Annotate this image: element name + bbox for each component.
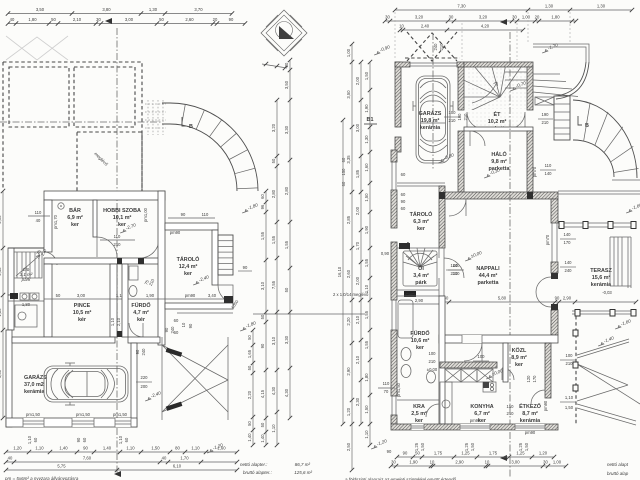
right plan top dimension row 3 — [400, 29, 523, 31]
HALO top wall — [464, 127, 533, 131]
svg-text:170: 170 — [564, 240, 572, 245]
svg-text:TÁROLÓ: TÁROLÓ — [177, 255, 200, 263]
svg-text:4,50: 4,50 — [0, 369, 2, 378]
svg-text:100: 100 — [429, 351, 437, 356]
svg-text:kerámia: kerámia — [420, 125, 441, 131]
svg-text:90: 90 — [83, 446, 88, 451]
dashed upper-floor outline rect 1 — [9, 67, 69, 127]
svg-text:90: 90 — [164, 327, 169, 332]
svg-text:7,55: 7,55 — [271, 280, 276, 289]
kitchen counters with X — [445, 369, 461, 382]
svg-text:4,30: 4,30 — [271, 386, 276, 395]
TAROLO top wall — [165, 223, 218, 230]
svg-text:KÖZL: KÖZL — [512, 347, 527, 354]
dashed upper-floor outline rect 2 — [74, 67, 135, 127]
svg-text:kér: kér — [137, 317, 146, 323]
svg-text:40: 40 — [10, 17, 15, 22]
right plan left outer wall — [391, 150, 397, 162]
svg-text:190: 190 — [542, 112, 550, 117]
svg-text:1,50: 1,50 — [364, 71, 369, 80]
svg-text:1,50: 1,50 — [420, 442, 425, 451]
svg-text:40: 40 — [162, 456, 167, 461]
svg-text:3,20: 3,20 — [479, 15, 488, 20]
lower-right ramp zigzag hatch — [577, 339, 640, 425]
svg-text:3,00: 3,00 — [511, 460, 520, 465]
GARAGE right wall — [131, 343, 137, 427]
svg-text:HÁLÓ: HÁLÓ — [491, 150, 506, 158]
svg-text:ker: ker — [71, 222, 80, 228]
svg-text:150: 150 — [507, 404, 515, 409]
svg-text:30: 30 — [284, 62, 289, 67]
terrace bottom edge with posts — [572, 310, 636, 312]
svg-text:44,4 m²: 44,4 m² — [479, 273, 498, 279]
svg-text:2,00: 2,00 — [355, 276, 360, 285]
svg-text:1,55: 1,55 — [364, 310, 369, 319]
svg-text:10: 10 — [181, 322, 186, 327]
svg-text:párk: párk — [21, 277, 32, 282]
svg-text:170: 170 — [532, 375, 537, 383]
svg-text:2,20: 2,20 — [247, 390, 252, 399]
svg-text:140: 140 — [565, 260, 573, 265]
svg-text:1,10: 1,10 — [271, 424, 276, 433]
svg-text:50: 50 — [159, 17, 164, 22]
svg-text:60: 60 — [174, 318, 179, 323]
TAROLO bottom wall — [165, 303, 233, 309]
svg-text:60: 60 — [124, 437, 129, 442]
svg-text:pm1,50: pm1,50 — [26, 412, 41, 417]
svg-text:1,10: 1,10 — [35, 446, 44, 451]
svg-text:2,85: 2,85 — [346, 215, 351, 224]
svg-text:2,40: 2,40 — [0, 267, 2, 276]
small dark pier marks — [117, 258, 122, 264]
left plan outer top wall — [44, 191, 165, 200]
left wall lower (to garage) — [8, 295, 14, 330]
terrace upper boundary line — [558, 190, 640, 192]
svg-text:1,10: 1,10 — [191, 446, 200, 451]
dashed roof gable lines — [6, 36, 68, 60]
svg-text:210: 210 — [114, 242, 122, 247]
door arc bar — [97, 237, 117, 257]
stair annex winder stairs — [14, 252, 42, 278]
svg-text:kerámia: kerámia — [591, 282, 612, 288]
svg-text:parketta: parketta — [478, 280, 500, 286]
bath fixtures — [129, 286, 137, 297]
svg-text:pm70: pm70 — [532, 166, 537, 177]
svg-text:KONYHA: KONYHA — [470, 404, 493, 410]
svg-text:ÉTKEZŐ: ÉTKEZŐ — [519, 402, 541, 410]
svg-text:30: 30 — [391, 460, 396, 465]
svg-text:B: B — [189, 124, 193, 130]
right main wall — [158, 191, 165, 345]
ramp fan borders + posts below terrace — [575, 316, 577, 425]
svg-text:1,60: 1,60 — [364, 163, 369, 172]
svg-text:1,80: 1,80 — [28, 17, 37, 22]
svg-text:4,7 m²: 4,7 m² — [133, 310, 149, 316]
svg-text:Ól: Ól — [418, 264, 424, 272]
svg-text:BÁR: BÁR — [69, 207, 81, 214]
X-braced box — [535, 97, 554, 105]
door arc annex — [44, 252, 57, 265]
exterior steps strip stack — [554, 96, 570, 140]
svg-text:50: 50 — [260, 314, 265, 319]
svg-text:90: 90 — [76, 437, 81, 442]
svg-text:1,10: 1,10 — [118, 435, 123, 444]
svg-text:1,65: 1,65 — [247, 349, 252, 358]
svg-text:150: 150 — [341, 168, 346, 176]
section mark B (left plan) — [182, 117, 186, 126]
svg-text:1,80: 1,80 — [0, 308, 2, 317]
svg-text:100: 100 — [457, 113, 462, 121]
FURDO walls — [122, 264, 128, 337]
svg-text:kerámia: kerámia — [520, 418, 541, 424]
svg-text:2,90: 2,90 — [346, 367, 351, 376]
svg-text:15,6 m²: 15,6 m² — [592, 275, 611, 281]
svg-text:90: 90 — [260, 343, 265, 348]
interior wall bar/hobbi divider — [93, 200, 97, 237]
svg-text:60: 60 — [341, 181, 346, 186]
svg-text:210: 210 — [439, 43, 444, 51]
svg-text:50: 50 — [56, 293, 61, 298]
right plan bottom dim rows — [397, 456, 554, 458]
exterior landing rect top-right — [533, 44, 589, 62]
svg-text:50: 50 — [247, 365, 252, 370]
svg-text:3,40: 3,40 — [208, 293, 217, 298]
svg-text:pm1,50: pm1,50 — [113, 412, 128, 417]
left plan bottom dim rows — [6, 451, 237, 453]
svg-text:ker: ker — [515, 362, 524, 368]
svg-text:3,30: 3,30 — [284, 335, 289, 344]
slanted black bars on ramp — [166, 348, 183, 357]
centerline dashdot garage — [432, 33, 434, 170]
door arc kozl-konyha — [502, 368, 514, 380]
FURDO (right plan) fixtures and walls — [439, 296, 445, 424]
kozl/etkezo divider — [503, 343, 508, 382]
svg-text:96: 96 — [260, 204, 265, 209]
section arrows on dash-dot line (right plan) — [500, 19, 507, 25]
svg-text:1,50: 1,50 — [524, 442, 529, 451]
door arc furdo — [129, 323, 143, 337]
svg-text:4,15: 4,15 — [260, 389, 265, 398]
svg-text:70: 70 — [384, 389, 389, 394]
svg-text:5,75: 5,75 — [57, 464, 66, 469]
interior dim 110/40 left — [28, 215, 50, 217]
svg-text:90: 90 — [403, 451, 408, 456]
svg-text:pm90: pm90 — [543, 400, 548, 411]
svg-text:3,4 m²: 3,4 m² — [413, 273, 429, 279]
left plan right vertical dim chains — [252, 330, 254, 445]
svg-text:7,30: 7,30 — [457, 4, 466, 9]
svg-text:1,75: 1,75 — [434, 451, 443, 456]
dark wall piers (right plan) — [399, 243, 410, 249]
svg-text:80: 80 — [175, 446, 180, 451]
svg-text:50: 50 — [247, 421, 252, 426]
svg-text:FÜRDŐ: FÜRDŐ — [131, 302, 150, 309]
svg-text:2,60: 2,60 — [185, 17, 194, 22]
NAPPALI top wall — [445, 192, 558, 199]
exterior stair treads right of ET — [533, 73, 560, 75]
svg-text:1,25: 1,25 — [464, 442, 469, 451]
svg-text:1,85: 1,85 — [355, 169, 360, 178]
svg-text:1,00: 1,00 — [346, 48, 351, 57]
svg-text:10,6 m²: 10,6 m² — [411, 338, 430, 344]
wall nappali bottom / kozl top — [439, 335, 558, 343]
dashed roof X over right garage — [407, 32, 457, 61]
svg-text:50: 50 — [247, 335, 252, 340]
ramp radial steps — [182, 104, 186, 125]
curved ramp outer arc — [170, 103, 258, 191]
svg-text:60: 60 — [174, 330, 179, 335]
svg-text:3,70: 3,70 — [194, 7, 203, 12]
svg-text:3,20: 3,20 — [415, 15, 424, 20]
svg-text:ker: ker — [416, 345, 425, 351]
GARAGE bottom wall with door openings — [6, 418, 137, 427]
svg-text:10: 10 — [485, 460, 490, 465]
svg-text:párk: párk — [415, 280, 426, 286]
interior dim 110/210 — [100, 239, 135, 241]
small dim ticks under north symbol — [262, 64, 287, 68]
svg-text:2,40: 2,40 — [421, 24, 430, 29]
curved wall from landing to stairs — [556, 62, 589, 99]
lamp circle in bar — [58, 203, 64, 209]
svg-text:1,25: 1,25 — [518, 442, 523, 451]
french doors to terrace — [536, 277, 551, 307]
svg-text:nettó alapter.:: nettó alapter.: — [240, 462, 268, 467]
door arc nappali from hall — [449, 199, 466, 216]
section dash-dot vertical right plan — [509, 32, 511, 478]
svg-text:110: 110 — [35, 210, 42, 215]
interior dim row pince — [44, 298, 230, 300]
svg-text:1,30: 1,30 — [545, 4, 554, 9]
svg-text:2,00: 2,00 — [355, 76, 360, 85]
svg-text:pm1,00: pm1,00 — [143, 207, 148, 222]
ET right wall — [527, 67, 533, 110]
svg-text:3,50: 3,50 — [284, 80, 289, 89]
dashed rect meglevo — [77, 132, 142, 197]
svg-text:pm90: pm90 — [170, 230, 181, 235]
north arrow symbol — [261, 10, 307, 56]
svg-text:0,90: 0,90 — [381, 251, 390, 256]
svg-text:2,60: 2,60 — [346, 269, 351, 278]
svg-text:90: 90 — [401, 199, 406, 204]
OL spiral stair room — [397, 247, 439, 249]
svg-text:140: 140 — [545, 171, 553, 176]
svg-text:60: 60 — [82, 437, 87, 442]
svg-text:2,90: 2,90 — [415, 298, 424, 303]
HALO right wall — [527, 131, 533, 192]
svg-text:1,90: 1,90 — [364, 225, 369, 234]
svg-text:60: 60 — [33, 437, 38, 442]
dashed outer projection boundary — [3, 62, 142, 190]
svg-text:60: 60 — [401, 206, 406, 211]
internal dim row nappali — [443, 301, 636, 303]
svg-text:90: 90 — [181, 212, 186, 217]
svg-text:TÁROLÓ: TÁROLÓ — [410, 210, 433, 218]
svg-text:10,1 m²: 10,1 m² — [113, 215, 132, 221]
svg-text:1,70: 1,70 — [355, 241, 360, 250]
svg-text:125,6 m²: 125,6 m² — [294, 470, 312, 475]
svg-text:90: 90 — [188, 323, 193, 328]
svg-text:3,00: 3,00 — [77, 293, 86, 298]
svg-text:2,90: 2,90 — [563, 296, 572, 301]
svg-text:bruttó alapter.:: bruttó alapter.: — [243, 470, 273, 475]
svg-text:pm90: pm90 — [470, 418, 481, 423]
svg-text:50: 50 — [51, 17, 56, 22]
KRA room — [397, 399, 439, 401]
door arc hobbi — [140, 239, 159, 258]
right plan top dimension row 2 — [385, 20, 576, 22]
svg-text:nettó alapt: nettó alapt — [607, 462, 629, 467]
svg-text:2,10: 2,10 — [116, 317, 121, 326]
svg-text:1,55: 1,55 — [364, 258, 369, 267]
left plan top dimension row 2 — [8, 23, 245, 25]
door arc kra — [426, 404, 439, 417]
svg-text:3,30: 3,30 — [284, 125, 289, 134]
svg-text:50: 50 — [271, 158, 276, 163]
svg-text:19,8 m²: 19,8 m² — [421, 118, 440, 124]
svg-text:pm70: pm70 — [545, 234, 550, 245]
svg-text:1,55: 1,55 — [284, 240, 289, 249]
svg-text:1,10: 1,10 — [364, 430, 369, 439]
left plan left wall upper — [44, 200, 52, 252]
svg-text:bruttó alap: bruttó alap — [607, 471, 629, 476]
svg-text:1,80: 1,80 — [551, 15, 560, 20]
stair arrow — [16, 255, 40, 276]
svg-text:2,10: 2,10 — [73, 17, 82, 22]
tarolo upper small dims — [168, 217, 215, 219]
small annex with quarter arc — [218, 285, 233, 302]
terrace top edge with posts — [558, 222, 636, 224]
svg-text:30: 30 — [512, 15, 517, 20]
svg-text:4,30: 4,30 — [284, 388, 289, 397]
svg-text:3,80: 3,80 — [102, 7, 111, 12]
HALO left wall — [458, 131, 464, 192]
svg-text:1,40: 1,40 — [103, 446, 112, 451]
svg-text:1,80: 1,80 — [364, 373, 369, 382]
svg-text:pm1,50: pm1,50 — [76, 412, 91, 417]
french door dark posts — [551, 273, 558, 279]
svg-text:10,5 m²: 10,5 m² — [73, 310, 92, 316]
svg-text:3,10: 3,10 — [271, 336, 276, 345]
fan bottom edge — [612, 179, 640, 181]
svg-text:1,55: 1,55 — [364, 340, 369, 349]
svg-text:4,20: 4,20 — [481, 24, 490, 29]
svg-text:6,3 m²: 6,3 m² — [413, 219, 429, 225]
svg-text:210: 210 — [449, 118, 457, 123]
GARAGE top wall — [12, 337, 115, 343]
svg-text:90: 90 — [243, 265, 248, 270]
svg-text:TERASZ: TERASZ — [590, 268, 612, 274]
svg-text:100: 100 — [478, 354, 486, 359]
svg-text:3,35: 3,35 — [346, 155, 351, 164]
svg-text:1,00: 1,00 — [553, 460, 562, 465]
svg-text:140: 140 — [451, 263, 459, 268]
cooktop — [483, 382, 496, 392]
svg-text:kerámia: kerámia — [24, 389, 45, 395]
vertical guide dashes from top dims — [395, 12, 570, 60]
svg-text:1,50: 1,50 — [565, 405, 574, 410]
site boundary line between plans — [253, 313, 365, 315]
terrace right steps — [627, 237, 629, 288]
svg-text:kér: kér — [78, 317, 87, 323]
garage/ET divider wall — [458, 67, 464, 110]
svg-text:200: 200 — [141, 384, 149, 389]
svg-text:2,80: 2,80 — [284, 186, 289, 195]
left plan left vertical dim chain — [2, 191, 4, 418]
svg-text:1,00: 1,00 — [522, 15, 531, 20]
svg-text:7,60: 7,60 — [83, 456, 92, 461]
svg-text:30: 30 — [449, 15, 454, 20]
svg-text:120: 120 — [526, 375, 531, 383]
svg-text:9,8 m²: 9,8 m² — [491, 159, 507, 165]
svg-text:1,90: 1,90 — [146, 293, 155, 298]
svg-text:2,10: 2,10 — [355, 355, 360, 364]
ramp top edge lines — [162, 103, 170, 124]
svg-text:2,00: 2,00 — [355, 206, 360, 215]
svg-text:HOBBI SZOBA: HOBBI SZOBA — [103, 208, 141, 214]
car (left plan garage) — [44, 363, 128, 405]
svg-text:1,10: 1,10 — [27, 435, 32, 444]
svg-text:210: 210 — [451, 271, 459, 276]
svg-text:10: 10 — [399, 24, 404, 29]
ramp area with X pattern — [162, 345, 228, 412]
svg-text:240: 240 — [565, 268, 573, 273]
svg-text:16,10: 16,10 — [337, 266, 342, 277]
OL/nappali wall with door — [438, 248, 440, 258]
svg-text:1,55: 1,55 — [271, 235, 276, 244]
right plan garage car (vertical) — [413, 76, 453, 163]
svg-text:GARÁZS: GARÁZS — [419, 110, 442, 117]
svg-text:210: 210 — [507, 411, 515, 416]
svg-text:ker: ker — [417, 226, 426, 232]
corridor dotted floor below ET — [468, 111, 524, 129]
ET top wall — [464, 62, 533, 67]
svg-text:1,20: 1,20 — [13, 446, 22, 451]
svg-text:30: 30 — [543, 460, 548, 465]
svg-text:1,20: 1,20 — [346, 407, 351, 416]
curved ramp inner arc — [170, 124, 237, 191]
svg-text:50: 50 — [260, 422, 265, 427]
left kitchen counter with sink — [440, 382, 452, 424]
entry dim 1,80 — [8, 300, 44, 302]
svg-text:100: 100 — [449, 110, 457, 115]
right plan top dimension row 1 — [395, 9, 632, 11]
section dash-dot line vertical (left plan) — [116, 28, 118, 474]
svg-text:6,7 m²: 6,7 m² — [474, 411, 490, 417]
svg-text:1,75: 1,75 — [489, 451, 498, 456]
PINCE room walls — [44, 264, 52, 337]
svg-text:110: 110 — [114, 234, 121, 239]
svg-text:6,9 m²: 6,9 m² — [67, 215, 83, 221]
svg-text:PINCE: PINCE — [74, 303, 91, 309]
ET dotted floor — [466, 68, 526, 109]
svg-text:8,7 m²: 8,7 m² — [522, 411, 538, 417]
svg-text:5,80: 5,80 — [498, 296, 507, 301]
TAROLO right wall — [212, 230, 218, 285]
svg-text:37,0 m2: 37,0 m2 — [24, 382, 44, 388]
svg-text:pm1,70: pm1,70 — [53, 214, 58, 229]
svg-text:12,4 m²: 12,4 m² — [179, 264, 198, 270]
svg-text:90: 90 — [135, 349, 140, 354]
svg-text:1,30: 1,30 — [597, 4, 606, 9]
svg-text:220: 220 — [141, 375, 149, 380]
svg-text:240: 240 — [141, 348, 146, 356]
tarolo side stairs — [218, 235, 233, 275]
svg-text:100: 100 — [566, 353, 574, 358]
svg-text:1,55: 1,55 — [260, 231, 265, 240]
svg-text:90: 90 — [387, 449, 392, 454]
svg-text:110: 110 — [545, 163, 552, 168]
right garage top wall + garage door — [395, 62, 410, 67]
